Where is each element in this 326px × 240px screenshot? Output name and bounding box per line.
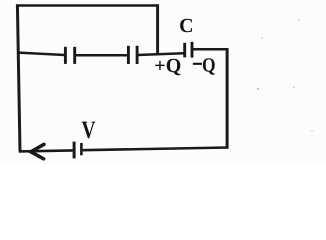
svg-text:C: C — [179, 15, 193, 37]
paper speck — [311, 130, 312, 131]
paper speck — [261, 37, 262, 38]
battery V right plate — [80, 143, 83, 155]
wire top horizontal — [16, 4, 159, 7]
wire middle between capacitors — [75, 54, 128, 57]
arrow current direction on bottom wire — [31, 144, 44, 159]
battery V left plate — [73, 142, 76, 159]
paper speck — [257, 88, 259, 90]
wire right vertical — [226, 48, 229, 148]
capacitor 1 left plate — [64, 47, 67, 64]
svg-text:+Q: +Q — [154, 55, 181, 77]
wire connector vertical from top to middle — [156, 4, 159, 54]
wire bottom horizontal left of battery — [19, 150, 73, 151]
capacitor 2 right plate — [136, 46, 139, 64]
wire bottom horizontal right of battery — [83, 148, 229, 151]
wire middle from second capacitor to capacitor C — [138, 53, 184, 55]
capacitor C right plate — [191, 42, 194, 58]
wire middle left segment — [19, 53, 65, 55]
paper speck — [298, 19, 300, 21]
paper speck — [293, 87, 295, 89]
wire left vertical — [17, 4, 20, 151]
svg-text:Q: Q — [202, 55, 216, 77]
capacitor 1 right plate — [73, 47, 76, 64]
svg-text:V: V — [82, 117, 96, 144]
capacitor 2 left plate — [127, 46, 130, 64]
label -Q minus stroke — [193, 63, 202, 65]
capacitor C left plate — [183, 43, 186, 58]
wire from capacitor C to right corner — [192, 48, 228, 51]
